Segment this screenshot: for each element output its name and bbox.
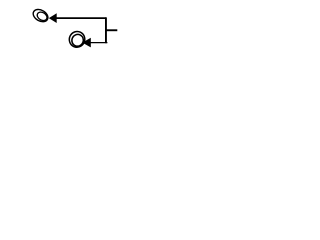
ring terminal 2 inner ellipse	[70, 33, 85, 49]
ring terminal 1 outer ellipse	[31, 7, 50, 24]
stub tick on bus	[106, 29, 118, 31]
wire from bus corner to arrow 1	[56, 17, 106, 19]
ring terminal 1 inner ellipse	[36, 10, 49, 22]
arrowhead to ring 2	[82, 38, 91, 48]
vertical bus wire	[105, 17, 107, 43]
arrowhead to ring 1	[49, 13, 57, 23]
wire from bus to arrow 2	[90, 42, 107, 44]
ring terminal 2 outer ellipse	[67, 29, 88, 50]
background	[0, 0, 150, 57]
